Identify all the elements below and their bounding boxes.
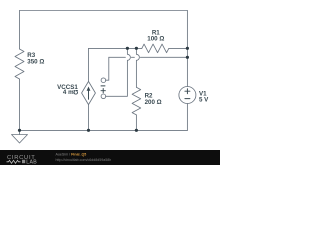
junction node dot R2 bottom: [135, 129, 138, 132]
svg-text:LAB: LAB: [26, 159, 37, 165]
terminal minus circle: [101, 78, 106, 83]
wire right rail upper: [186, 11, 188, 87]
junction node dot VCCS bottom: [87, 129, 90, 132]
ground stem: [19, 130, 21, 134]
junction node dot R1-A: [126, 47, 129, 50]
wire left rail upper: [19, 11, 21, 50]
resistor R2: [132, 87, 141, 115]
svg-text:200 Ω: 200 Ω: [145, 99, 162, 106]
V1 plus sign: [185, 89, 190, 94]
terminal minus sign: [101, 85, 105, 87]
wire top rail: [20, 10, 188, 12]
svg-text:100 Ω: 100 Ω: [147, 36, 164, 43]
junction node dot R1-B: [135, 47, 138, 50]
V1 minus sign: [185, 98, 190, 100]
logo resistor zigzag: [7, 160, 21, 163]
svg-text:4 m: 4 m: [63, 89, 74, 96]
vccs arrow shaft: [88, 89, 90, 99]
svg-text:http://circuitlab.com/c6dd8d59: http://circuitlab.com/c6dd8d59a58h: [56, 158, 112, 162]
junction node dot right rail control: [186, 56, 189, 59]
wire VCCS1 top: [88, 48, 90, 81]
svg-text:AueSim / Final_Q5: AueSim / Final_Q5: [56, 153, 87, 157]
wire control minus vertical: [106, 57, 109, 80]
terminal plus sign: [101, 89, 105, 93]
wire bottom rail: [20, 129, 188, 131]
junction node dot right rail R1: [186, 47, 189, 50]
wire right rail lower: [186, 104, 188, 131]
wire left rail lower: [19, 79, 21, 130]
voltage source V1 circle: [179, 87, 196, 104]
wire R1 left: [89, 47, 142, 49]
ground triangle: [12, 135, 28, 144]
wire node B vertical with hop: [136, 48, 139, 87]
wire VCCS1 bottom: [88, 105, 90, 131]
resistor R1: [142, 44, 169, 53]
vccs arrow head: [87, 87, 91, 91]
wire R1 right: [169, 47, 188, 49]
wire control horizontal seg2: [131, 56, 134, 58]
wire control horizontal seg1: [109, 56, 126, 58]
svg-text:Ω: Ω: [73, 88, 78, 95]
footer bar: [0, 150, 220, 165]
wire control horizontal seg3: [140, 56, 187, 58]
vccs U1 diamond: [82, 81, 96, 104]
resistor R3: [15, 49, 24, 79]
wire node A vertical with hop: [106, 48, 131, 96]
svg-text:5 V: 5 V: [199, 96, 209, 103]
terminal plus circle: [101, 94, 106, 99]
wire R2 bottom: [135, 115, 137, 130]
junction node dot ground: [18, 129, 21, 132]
svg-text:350 Ω: 350 Ω: [27, 58, 44, 65]
